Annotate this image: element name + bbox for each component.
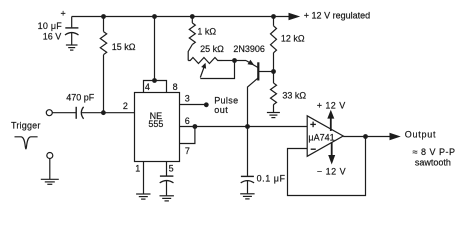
transistor Q1 2N3906 [235, 60, 274, 127]
svg-text:1: 1 [135, 163, 140, 173]
node rail-15k junction [101, 14, 106, 19]
svg-text:1 kΩ: 1 kΩ [197, 27, 216, 37]
svg-text:6: 6 [185, 116, 190, 126]
ground G4 [160, 196, 174, 201]
svg-text:μA741: μA741 [308, 132, 334, 142]
wire pin1 [143, 162, 145, 194]
node output junction [363, 134, 368, 139]
node rail-555 junction [152, 14, 157, 19]
svg-text:out: out [214, 105, 228, 115]
label NE [150, 111, 163, 121]
capacitor C1 10uF 16V electrolytic [65, 17, 79, 45]
pin label 3 [185, 94, 190, 104]
svg-text:470 pF: 470 pF [66, 93, 95, 103]
svg-text:5: 5 [169, 163, 174, 173]
label 1k [197, 27, 216, 37]
node bracket junction [152, 78, 157, 83]
svg-text:15 kΩ: 15 kΩ [112, 42, 136, 52]
node base junction [271, 69, 276, 74]
label 555 [148, 119, 163, 129]
svg-text:Trigger: Trigger [11, 121, 41, 131]
svg-text:+: + [61, 9, 66, 19]
svg-text:555: 555 [148, 119, 163, 129]
resistor R1 15k [100, 17, 106, 113]
svg-text:sawtooth: sawtooth [415, 157, 451, 167]
wire trigger to C2 [52, 112, 76, 114]
ground G1 [66, 45, 78, 50]
ground G3 [136, 194, 150, 199]
svg-text:25 kΩ: 25 kΩ [200, 44, 224, 54]
terminal trigger ground [47, 153, 53, 159]
label minus input [311, 148, 316, 150]
pin label 7 [185, 146, 190, 156]
svg-text:3: 3 [185, 94, 190, 104]
IC U1 NE555 box [135, 93, 180, 162]
svg-text:− 12 V: − 12 V [317, 166, 346, 176]
label Trigger [11, 121, 41, 131]
svg-text:10 μF: 10 μF [38, 21, 63, 31]
svg-text:8: 8 [173, 82, 178, 92]
label 12k [281, 33, 305, 43]
capacitor C2 470pF [76, 107, 83, 119]
capacitor C3 pin5 bypass [160, 176, 174, 195]
capacitor C4 0.1uF [241, 127, 254, 194]
svg-text:+ 12 V regulated: + 12 V regulated [304, 10, 370, 20]
svg-text:4: 4 [145, 82, 150, 92]
resistor R5 33k [271, 72, 277, 113]
wire 555 supply [154, 17, 156, 81]
label uA741 [308, 132, 334, 142]
resistor R4 12k [271, 17, 277, 72]
op-amp U2 uA741 [307, 116, 343, 157]
pin label 5 [169, 163, 174, 173]
svg-text:0.1 μF: 0.1 μF [257, 174, 286, 184]
pin label 8 [173, 82, 178, 92]
label 15k [112, 42, 136, 52]
potentiometer R3 25k [188, 58, 234, 64]
svg-text:2N3906: 2N3906 [233, 44, 265, 54]
label sawtooth [415, 157, 451, 167]
terminal trigger input [46, 110, 52, 116]
svg-text:12 kΩ: 12 kΩ [281, 33, 305, 43]
svg-text:Output: Output [405, 130, 437, 140]
wire +12V rail [72, 16, 290, 18]
ground G5 [240, 194, 254, 199]
pin label 4 [145, 82, 150, 92]
label Output [405, 130, 437, 140]
node collector-cap junction [245, 124, 250, 129]
wire feedback loop [288, 136, 366, 195]
svg-text:≈ 8 V P-P: ≈ 8 V P-P [413, 147, 456, 157]
label 33k [282, 91, 306, 101]
label 25k [200, 44, 224, 54]
svg-text:7: 7 [185, 146, 190, 156]
pin label 6 [185, 116, 190, 126]
ground G2 [41, 179, 59, 184]
label +12V [317, 100, 346, 110]
node rail-1k junction [190, 14, 195, 19]
arrow +12V supply [327, 110, 334, 131]
node rail-12k junction [271, 14, 276, 19]
svg-text:2: 2 [123, 101, 128, 111]
arrow +12V regulated [289, 13, 301, 20]
node pin2 junction [101, 110, 106, 115]
wire pin4-8 bracket [144, 81, 167, 93]
label 8V P-P [413, 147, 456, 157]
label plus sign C1 [61, 9, 66, 19]
pin label 2 [123, 101, 128, 111]
wire pin5 [166, 162, 168, 176]
label +12V regulated [304, 10, 370, 20]
pin label 1 [135, 163, 140, 173]
svg-text:33 kΩ: 33 kΩ [282, 91, 306, 101]
wiper arrow R3 [200, 61, 234, 79]
arrow output [390, 133, 401, 140]
svg-text:+ 12 V: + 12 V [317, 100, 346, 110]
wire opamp output [343, 136, 390, 138]
ground G6 [267, 113, 280, 118]
label -12V [317, 166, 346, 176]
label 0.1uF [257, 174, 286, 184]
label Pulse [214, 95, 238, 105]
label 470pF [66, 93, 95, 103]
wire trigger ground [49, 159, 51, 180]
label 16V [43, 32, 62, 42]
wire pin7 [179, 127, 195, 144]
wire pin3 pulse out [179, 104, 204, 106]
node pot-emitter junction [232, 58, 237, 63]
label plus input [310, 122, 316, 128]
label 10uF [38, 21, 63, 31]
terminal pulse out dot [204, 102, 209, 107]
trigger waveform symbol [15, 137, 38, 149]
wire C2 to pin2 [81, 112, 134, 114]
node pin6-7 junction [193, 124, 198, 129]
label out [214, 105, 228, 115]
label 2N3906 [233, 44, 265, 54]
resistor R2 1k [188, 17, 195, 61]
arrow -12V supply [328, 142, 335, 164]
wire pin6 node to opamp [179, 126, 307, 128]
svg-text:16 V: 16 V [43, 32, 62, 42]
